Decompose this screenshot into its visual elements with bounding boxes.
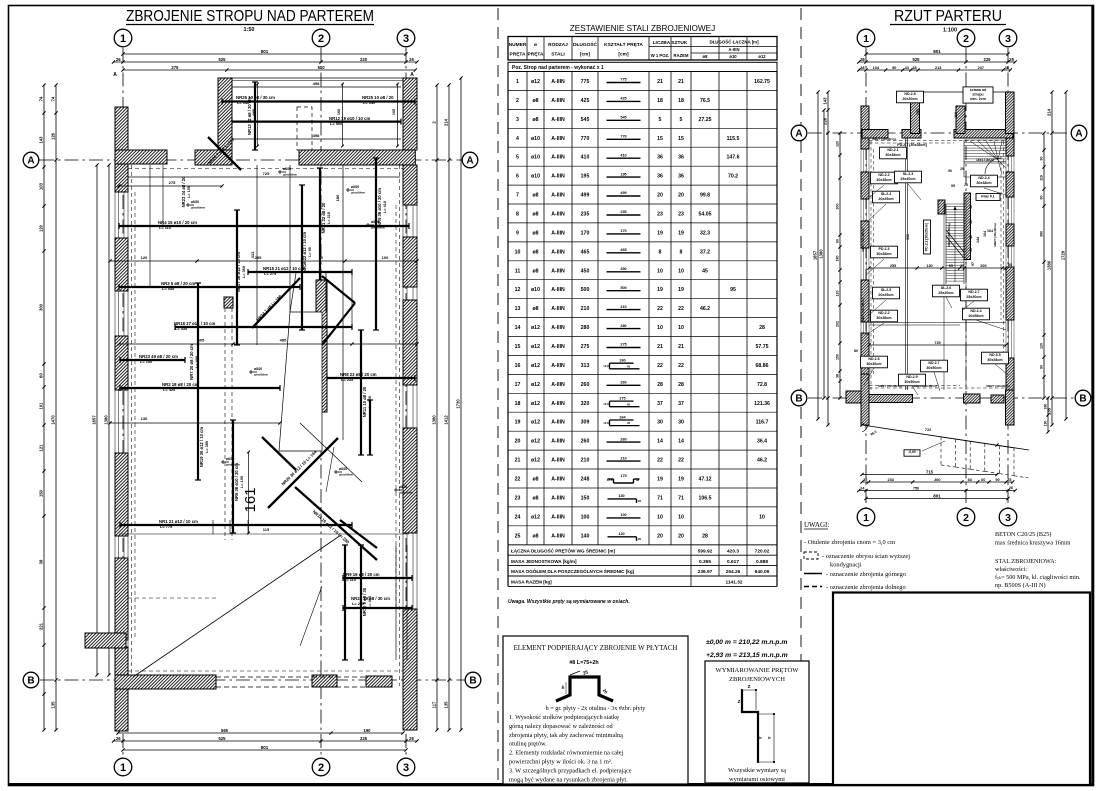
svg-text:170: 170 [581, 230, 590, 236]
svg-text:ø8: ø8 [532, 306, 538, 312]
svg-text:750: 750 [913, 486, 919, 490]
svg-text:147.6: 147.6 [727, 155, 740, 161]
svg-text:10: 10 [678, 514, 684, 520]
svg-text:101: 101 [39, 402, 44, 410]
svg-text:43: 43 [905, 66, 909, 70]
svg-text:130: 130 [141, 416, 148, 421]
svg-text:38: 38 [912, 66, 916, 70]
svg-text:2. Elementy rozkładać równo: 2. Elementy rozkładać równomiernie na ca… [509, 750, 624, 757]
axis circle A right of left plan [462, 152, 478, 168]
svg-text:775: 775 [620, 78, 626, 82]
left plan stair arrow thick V [322, 276, 355, 303]
svg-text:14: 14 [515, 325, 521, 331]
svg-text:12.8: 12.8 [603, 421, 609, 425]
svg-text:powierzchni płyty w ilości ok.: powierzchni płyty w ilości ok. 3 na 1 m²… [509, 759, 613, 766]
axis circle 1 bottom-left plan [114, 758, 132, 776]
svg-text:10: 10 [678, 268, 684, 274]
svg-text:A: A [410, 72, 414, 78]
right plan upper winder stairs [964, 140, 1006, 177]
axis circle 2 top-left plan [312, 29, 330, 47]
svg-text:MASA OGÓŁEM DLA POSZCZEGÓLNYCH: MASA OGÓŁEM DLA POSZCZEGÓLNYCH ŚREDNIC [… [511, 567, 635, 574]
svg-text:ND.2.4: ND.2.4 [978, 176, 989, 180]
svg-text:71: 71 [657, 495, 663, 501]
svg-text:ND.2.2: ND.2.2 [878, 173, 889, 177]
svg-text:ø8: ø8 [532, 268, 538, 274]
svg-text:26: 26 [1009, 57, 1014, 62]
svg-text:ø8/20: ø8/20 [339, 467, 347, 471]
svg-text:35: 35 [1008, 263, 1012, 267]
right plan east dimension chains [1043, 133, 1045, 398]
svg-text:104: 104 [873, 66, 880, 70]
svg-text:A-IIIN: A-IIIN [551, 382, 565, 388]
svg-text:L= 110: L= 110 [159, 225, 171, 230]
svg-text:ø10: ø10 [531, 287, 540, 293]
fold mark separator left [497, 8, 499, 784]
svg-text:275: 275 [581, 344, 590, 350]
svg-text:60: 60 [39, 373, 44, 378]
svg-text:MASA RAZEM [kg]: MASA RAZEM [kg] [511, 580, 552, 585]
svg-text:MB27 (30x38cm): MB27 (30x38cm) [861, 228, 865, 252]
svg-text:1: 1 [516, 79, 519, 85]
svg-text:ø10: ø10 [531, 174, 540, 180]
svg-text:18: 18 [657, 98, 663, 104]
svg-text:3: 3 [1005, 33, 1011, 45]
svg-text:NR19 30 ø12 / 10 cm: NR19 30 ø12 / 10 cm [199, 427, 204, 468]
svg-text:58: 58 [969, 205, 973, 209]
svg-text:57.75: 57.75 [756, 344, 769, 350]
svg-text:260: 260 [619, 359, 625, 363]
svg-text:PD.2.3: PD.2.3 [879, 247, 890, 251]
table data rows [508, 72, 777, 545]
svg-text:3. W szczególnych przypadkach: 3. W szczególnych przypadkach el. podpie… [509, 767, 632, 774]
svg-text:L= 235: L= 235 [341, 377, 354, 382]
left plan right wall with windows [403, 78, 417, 150]
svg-text:275: 275 [619, 397, 625, 401]
svg-text:DŁUGOŚĆ ŁĄCZNA [m]: DŁUGOŚĆ ŁĄCZNA [m] [709, 40, 759, 45]
svg-text:B: B [469, 676, 476, 687]
left plan upper storey dashed outlines [224, 308, 226, 540]
svg-text:ø8/20: ø8/20 [226, 457, 234, 461]
svg-text:20: 20 [515, 439, 521, 445]
svg-text:góra/dółem: góra/dółem [371, 225, 386, 229]
svg-text:SŁ.2.3: SŁ.2.3 [903, 172, 914, 176]
svg-text:PD.2.1 [30x28cm]: PD.2.1 [30x28cm] [897, 143, 927, 147]
svg-text:10: 10 [515, 249, 521, 255]
svg-text:214: 214 [1047, 108, 1052, 116]
svg-text:30x38cm: 30x38cm [987, 358, 1002, 362]
svg-text:210: 210 [581, 458, 590, 464]
svg-text:ND.3.5: ND.3.5 [989, 353, 1000, 357]
svg-text:8: 8 [659, 249, 662, 255]
svg-text:100: 100 [620, 513, 626, 517]
svg-text:NR16 22 ø12 / 10 cm: NR16 22 ø12 / 10 cm [302, 232, 307, 273]
svg-text:420.3: 420.3 [727, 548, 739, 554]
svg-text:10: 10 [759, 514, 765, 520]
svg-text:775: 775 [581, 79, 590, 85]
svg-text:SŁ.2.4: SŁ.2.4 [881, 192, 892, 196]
svg-text:L= 140: L= 140 [363, 100, 375, 105]
svg-text:83: 83 [968, 478, 972, 482]
svg-text:12.8: 12.8 [603, 402, 609, 406]
svg-text:A-IIIN: A-IIIN [551, 249, 565, 255]
svg-text:71: 71 [678, 495, 684, 501]
svg-text:KSZTAŁT PRĘTA: KSZTAŁT PRĘTA [604, 42, 643, 48]
svg-text:1657: 1657 [92, 415, 97, 425]
left plan west dimension chain inner [55, 85, 57, 730]
svg-text:236.97: 236.97 [698, 569, 713, 575]
svg-text:kondygnacji: kondygnacji [830, 562, 862, 569]
svg-text:ø8/20: ø8/20 [399, 485, 407, 489]
legend solid line symbol [804, 573, 822, 575]
left plan small column [224, 297, 233, 308]
svg-text:46.2: 46.2 [700, 306, 710, 312]
svg-text:1730: 1730 [456, 399, 461, 409]
svg-text:225: 225 [360, 57, 368, 62]
svg-text:h: h [562, 685, 565, 690]
svg-text:ø8/20: ø8/20 [351, 185, 359, 189]
svg-text:ø12: ø12 [758, 54, 766, 59]
right plan bottom dimension chains [862, 474, 997, 476]
svg-text:770: 770 [620, 135, 626, 139]
axis circle 3 top-left plan [397, 29, 415, 47]
svg-text:A-IIIN: A-IIIN [551, 230, 565, 236]
axis circle B right-right plan [1075, 390, 1091, 406]
svg-text:A-IIIN: A-IIIN [551, 174, 565, 180]
svg-text:ND.2.2: ND.2.2 [878, 311, 889, 315]
svg-text:22: 22 [657, 363, 663, 369]
svg-text:- Otulenie zbrojenia cnom = 3,: - Otulenie zbrojenia cnom = 3,0 cm [804, 539, 895, 546]
svg-text:21: 21 [515, 458, 521, 464]
svg-text:ø8/20: ø8/20 [371, 220, 379, 224]
svg-text:74: 74 [51, 96, 56, 101]
svg-text:313: 313 [581, 363, 590, 369]
left plan interior dim line mid [110, 260, 417, 262]
svg-text:70.2: 70.2 [728, 174, 738, 180]
svg-text:A-IIIN: A-IIIN [551, 136, 565, 142]
right plan interior partition walls [905, 138, 907, 390]
svg-text:90: 90 [1040, 365, 1044, 369]
svg-text:NR13 32 ø8 / 20 cm: NR13 32 ø8 / 20 cm [247, 97, 252, 135]
svg-text:3: 3 [403, 762, 409, 774]
svg-text:[cm]: [cm] [580, 52, 591, 58]
svg-text:30x50cm: 30x50cm [904, 380, 919, 384]
svg-text:165: 165 [337, 109, 341, 115]
svg-text:135: 135 [51, 701, 56, 709]
svg-text:ND.2.1: ND.2.1 [887, 148, 898, 152]
svg-text:ND.2.9: ND.2.9 [906, 375, 917, 379]
svg-text:801: 801 [933, 493, 941, 498]
svg-text:1412: 1412 [444, 415, 449, 425]
svg-text:L= 500: L= 500 [330, 121, 342, 126]
svg-text:275: 275 [171, 65, 179, 70]
left plan upper storey dashed outline chimney [297, 107, 312, 150]
svg-text:380: 380 [1040, 231, 1044, 237]
svg-text:45: 45 [702, 268, 708, 274]
svg-text:28: 28 [657, 382, 663, 388]
svg-text:0.395: 0.395 [699, 559, 711, 565]
svg-text:np. B500S (A-III N): np. B500S (A-III N) [995, 582, 1046, 589]
svg-text:95: 95 [949, 264, 953, 268]
svg-text:210: 210 [620, 305, 626, 309]
svg-text:NR6 36 ø10 / 20 cm: NR6 36 ø10 / 20 cm [234, 463, 239, 501]
svg-text:L= 195: L= 195 [240, 476, 244, 488]
svg-text:28: 28 [678, 382, 684, 388]
right plan top dimension chains [866, 53, 1008, 55]
svg-text:74: 74 [39, 96, 44, 101]
svg-text:BETON C20/25 (B25): BETON C20/25 (B25) [995, 531, 1051, 538]
svg-text:L= 400: L= 400 [195, 356, 199, 368]
left plan rebars diagonal [208, 137, 241, 170]
svg-text:237: 237 [978, 66, 984, 70]
svg-text:801: 801 [933, 49, 941, 54]
svg-text:A-IIIN: A-IIIN [551, 98, 565, 104]
svg-text:485: 485 [280, 338, 287, 343]
left plan A-axis wall west wing [115, 150, 167, 164]
svg-text:właściwości:: właściwości: [995, 566, 1027, 573]
svg-text:PRĘTA: PRĘTA [510, 52, 526, 58]
svg-text:725: 725 [263, 171, 270, 176]
svg-text:106.5: 106.5 [699, 495, 712, 501]
fold mark separator right [800, 8, 802, 784]
svg-text:235: 235 [581, 212, 590, 218]
svg-text:97: 97 [971, 262, 975, 266]
svg-text:525: 525 [219, 736, 227, 741]
svg-text:RAZEM: RAZEM [674, 53, 689, 58]
svg-text:165: 165 [392, 109, 396, 115]
svg-text:195: 195 [581, 174, 590, 180]
left plan interior vertical dim 1657 [96, 165, 98, 675]
svg-text:162.75: 162.75 [754, 79, 770, 85]
svg-text:L= 110: L= 110 [344, 577, 356, 582]
left plan interior dim 180 [342, 165, 344, 440]
svg-text:A-IIIN: A-IIIN [729, 47, 740, 52]
svg-text:38: 38 [1005, 66, 1009, 70]
svg-text:ND.2.6: ND.2.6 [868, 357, 879, 361]
svg-text:425: 425 [581, 98, 590, 104]
left plan stair opening [279, 312, 322, 451]
svg-text:214: 214 [444, 118, 449, 126]
svg-text:ø8: ø8 [532, 212, 538, 218]
svg-text:A-IIIN: A-IIIN [551, 268, 565, 274]
left plan terrace top edge [218, 77, 415, 79]
svg-text:25: 25 [960, 264, 964, 268]
svg-text:L= 410: L= 410 [383, 201, 387, 213]
table poz row [508, 62, 777, 71]
svg-text:±0,00 m = 210,22 m.n.p.m: ±0,00 m = 210,22 m.n.p.m [706, 639, 787, 646]
svg-text:225: 225 [984, 57, 992, 62]
empty title block box [833, 593, 1090, 786]
axis circle 2 top-right plan [957, 29, 975, 47]
right plan interior wall pieces [938, 200, 945, 214]
svg-text:60: 60 [836, 239, 840, 243]
svg-text:PD.2.2 [20x25cm]: PD.2.2 [20x25cm] [925, 223, 929, 251]
svg-text:25: 25 [964, 183, 968, 187]
svg-text:A-IIIN: A-IIIN [551, 344, 565, 350]
svg-text:36: 36 [678, 174, 684, 180]
right plan axis grid lines [865, 48, 867, 508]
svg-text:225: 225 [360, 736, 368, 741]
svg-text:22: 22 [678, 458, 684, 464]
svg-text:28: 28 [702, 533, 708, 539]
svg-text:30x38cm: 30x38cm [885, 153, 900, 157]
svg-text:14: 14 [678, 439, 684, 445]
svg-text:228: 228 [823, 117, 828, 125]
svg-text:B: B [1079, 394, 1086, 405]
svg-text:góra/dółem: góra/dółem [191, 205, 206, 209]
svg-text:90: 90 [995, 478, 999, 482]
svg-text:10: 10 [657, 514, 663, 520]
svg-text:20: 20 [657, 193, 663, 199]
svg-text:21: 21 [657, 79, 663, 85]
svg-text:175: 175 [620, 474, 626, 478]
svg-text:A-IIIN: A-IIIN [551, 212, 565, 218]
svg-text:stropu: stropu [972, 93, 983, 97]
svg-text:90: 90 [948, 169, 952, 173]
svg-text:19: 19 [515, 420, 521, 426]
svg-text:L= 210: L= 210 [327, 212, 331, 224]
svg-text:190: 190 [916, 109, 920, 115]
svg-text:A: A [27, 156, 34, 167]
svg-text:8: 8 [516, 212, 519, 218]
svg-text:ø12: ø12 [531, 325, 540, 331]
svg-text:275: 275 [169, 180, 176, 185]
left plan rebars horizontal [222, 100, 415, 102]
right plan middle stairs [944, 196, 966, 390]
svg-text:ø8: ø8 [532, 249, 538, 255]
svg-text:22: 22 [657, 458, 663, 464]
svg-text:210: 210 [581, 306, 590, 312]
svg-text:22: 22 [678, 363, 684, 369]
svg-text:180: 180 [335, 194, 340, 201]
svg-text:26: 26 [409, 57, 414, 62]
svg-text:13: 13 [515, 306, 521, 312]
svg-text:35: 35 [863, 478, 867, 482]
svg-text:STALI: STALI [551, 52, 565, 58]
svg-text:MB27 (30x38cm): MB27 (30x38cm) [872, 137, 896, 141]
svg-text:L= 380: L= 380 [205, 441, 209, 453]
svg-text:68.86: 68.86 [756, 363, 769, 369]
svg-text:545: 545 [620, 116, 626, 120]
svg-text:190: 190 [364, 728, 372, 733]
svg-text:120: 120 [618, 532, 624, 536]
svg-text:ø12: ø12 [531, 439, 540, 445]
svg-text:235: 235 [620, 210, 626, 214]
svg-text:MB27 (30x38cm): MB27 (30x38cm) [861, 298, 865, 322]
svg-text:6: 6 [516, 174, 519, 180]
svg-text:285: 285 [255, 255, 262, 260]
svg-text:22: 22 [657, 306, 663, 312]
svg-text:119: 119 [1040, 175, 1044, 181]
svg-text:Filar F.1: Filar F.1 [981, 195, 994, 199]
svg-text:54.05: 54.05 [699, 212, 712, 218]
right plan upper storey dashed outlines [870, 141, 872, 390]
table summary rows [508, 545, 777, 587]
svg-text:ZESTAWIENIE STALI ZBROJENIOWEJ: ZESTAWIENIE STALI ZBROJENIOWEJ [570, 24, 715, 33]
svg-text:SŁ.2.5: SŁ.2.5 [881, 288, 892, 292]
svg-text:26: 26 [860, 57, 865, 62]
svg-text:ø12: ø12 [531, 401, 540, 407]
svg-text:NUMER: NUMER [509, 42, 527, 48]
svg-text:565: 565 [221, 728, 229, 733]
svg-text:25x30cm: 25x30cm [966, 295, 981, 299]
svg-text:góra/dółem: góra/dółem [254, 372, 269, 376]
svg-text:770: 770 [581, 136, 590, 142]
svg-text:ø12: ø12 [531, 363, 540, 369]
svg-text:30x36cm: 30x36cm [866, 362, 881, 366]
svg-text:+2,93 m = 213,15 m.n.p.m: +2,93 m = 213,15 m.n.p.m [706, 652, 788, 659]
svg-text:A-IIIN: A-IIIN [551, 325, 565, 331]
svg-text:120: 120 [39, 224, 44, 232]
right plan terrace steps dashed [941, 437, 1029, 478]
svg-text:18: 18 [515, 401, 521, 407]
svg-text:30x38cm: 30x38cm [876, 316, 891, 320]
svg-text:Y: Y [758, 736, 763, 739]
svg-text:ø8/20: ø8/20 [254, 367, 262, 371]
svg-text:10: 10 [678, 325, 684, 331]
svg-text:19: 19 [678, 287, 684, 293]
right plan right wall with windows [1006, 92, 1014, 128]
svg-text:NR21 32 ø8 / 20: NR21 32 ø8 / 20 [321, 202, 326, 233]
svg-text:264.26: 264.26 [726, 569, 741, 575]
svg-text:260: 260 [581, 439, 590, 445]
svg-text:ø12: ø12 [531, 420, 540, 426]
axis circle A left [23, 152, 39, 168]
svg-text:498: 498 [313, 81, 320, 86]
svg-text:498: 498 [313, 133, 320, 138]
svg-text:180: 180 [836, 256, 840, 262]
svg-text:15: 15 [657, 136, 663, 142]
svg-text:26: 26 [116, 736, 121, 741]
svg-text:36: 36 [678, 155, 684, 161]
svg-text:275: 275 [620, 343, 626, 347]
axis circle A left-right plan [791, 125, 807, 141]
svg-text:525: 525 [219, 57, 227, 62]
svg-text:górną należy dopasować w: górną należy dopasować w zależności od [509, 723, 614, 730]
svg-text:#8 L=75+2h: #8 L=75+2h [569, 660, 598, 666]
svg-text:B: B [795, 394, 802, 405]
svg-text:otulinę prętów.: otulinę prętów. [509, 741, 547, 748]
svg-text:499: 499 [581, 193, 590, 199]
svg-text:ø8: ø8 [532, 230, 538, 236]
svg-text:720.02: 720.02 [755, 548, 770, 554]
left plan interior dim 313 [256, 165, 258, 345]
left plan upper storey dashed wall outlines [131, 165, 133, 675]
svg-text:MASA JEDNOSTKOWA [kg/m]: MASA JEDNOSTKOWA [kg/m] [511, 559, 577, 564]
svg-text:19: 19 [678, 230, 684, 236]
svg-text:410: 410 [581, 155, 590, 161]
svg-text:143: 143 [823, 97, 828, 105]
svg-text:510: 510 [318, 65, 326, 70]
svg-text:1: 1 [120, 33, 126, 45]
svg-text:120: 120 [1040, 343, 1044, 349]
svg-text:300: 300 [39, 303, 44, 311]
axis circle B left [23, 672, 39, 688]
element chair glyph [556, 677, 613, 701]
svg-text:ŁĄCZNA DŁUGOŚĆ PRĘTÓW WG ŚREDN: ŁĄCZNA DŁUGOŚĆ PRĘTÓW WG ŚREDNIC [m] [511, 546, 615, 553]
svg-text:332: 332 [906, 234, 910, 240]
svg-text:-0,60: -0,60 [908, 450, 915, 454]
svg-text:126: 126 [51, 132, 56, 140]
left plan interior dims upper terrace [232, 86, 401, 88]
svg-text:LICZBA SZTUK: LICZBA SZTUK [653, 40, 688, 46]
left plan top dimension chains [123, 53, 406, 55]
svg-text:144: 144 [976, 237, 980, 243]
svg-text:499: 499 [620, 191, 626, 195]
svg-text:NR11 10 ø8 / 20: NR11 10 ø8 / 20 [362, 386, 367, 417]
svg-text:ø12: ø12 [531, 514, 540, 520]
svg-text:7: 7 [516, 193, 519, 199]
svg-text:9: 9 [516, 230, 519, 236]
